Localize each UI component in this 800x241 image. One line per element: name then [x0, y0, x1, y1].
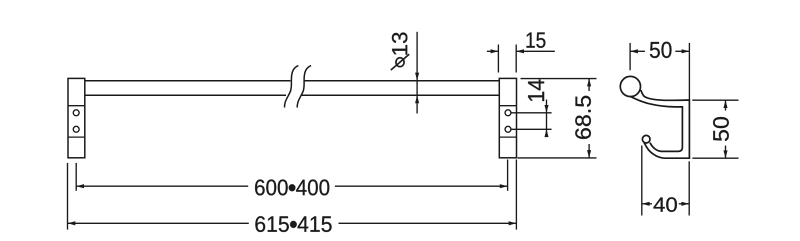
dimension 600-400 [76, 160, 507, 196]
dimension phi13 [390, 32, 419, 114]
dimension 14 [511, 80, 551, 138]
hook profile small ball [642, 135, 650, 143]
dimension 615-415 [68, 160, 517, 232]
right bracket screw holes [505, 110, 511, 132]
hook profile underside and inner contour [630, 96, 683, 151]
dimension 50 right [692, 100, 738, 158]
dimension 15 [487, 32, 555, 72]
hook profile big ball [620, 76, 640, 96]
dimension 50 top [630, 42, 689, 100]
dimension 40 bottom [642, 146, 689, 216]
left bracket screw holes [73, 110, 79, 132]
dimension 68.5 [518, 79, 597, 158]
hook profile top arm and outer plate contour [641, 90, 690, 158]
right bracket [499, 78, 516, 157]
left bracket [68, 78, 85, 157]
bar (rod) [85, 81, 500, 95]
break symbol [285, 66, 312, 108]
